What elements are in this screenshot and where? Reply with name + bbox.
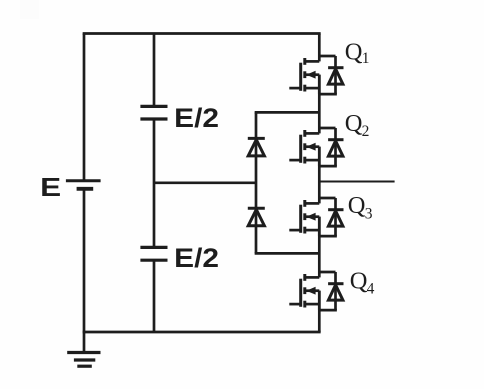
wire: Q1 drain from top rail bbox=[318, 34, 321, 62]
label E bbox=[40, 172, 61, 202]
svg-text:Q: Q bbox=[345, 110, 363, 137]
svg-text:2: 2 bbox=[362, 123, 370, 140]
wire: clamp chain vertical bbox=[255, 112, 258, 253]
svg-text:E: E bbox=[40, 172, 61, 202]
wire: neutral point link bbox=[154, 181, 256, 184]
diode D6 (lower clamp) bbox=[248, 208, 265, 226]
label E/2 for C2 bbox=[174, 243, 219, 273]
transistor Q1 (N-MOSFET with body diode) bbox=[289, 56, 343, 94]
wire: Q2 source to Q3 drain bbox=[318, 147, 321, 204]
transistor Q2 (N-MOSFET with body diode) bbox=[289, 128, 343, 166]
wire: left rail lower segment bbox=[83, 189, 86, 332]
label Q3 bbox=[348, 192, 373, 223]
wire: capacitor branch, top rail to C1 bbox=[153, 34, 156, 107]
wire: Q3 source to Q4 drain bbox=[318, 217, 321, 278]
svg-text:4: 4 bbox=[367, 281, 375, 298]
wire: output line bbox=[319, 181, 394, 183]
svg-text:Q: Q bbox=[345, 39, 363, 66]
wire: Q4 source to bottom rail bbox=[318, 291, 321, 332]
wire: top DC+ rail bbox=[83, 32, 321, 35]
capacitor C1 bbox=[140, 106, 167, 119]
ground bbox=[67, 332, 100, 366]
voltage source E (battery) bbox=[66, 181, 101, 189]
svg-text:E/2: E/2 bbox=[174, 103, 219, 133]
label Q2 bbox=[345, 110, 370, 140]
svg-text:Q: Q bbox=[350, 268, 368, 295]
wire: left rail upper segment bbox=[83, 34, 86, 181]
transistor Q3 (N-MOSFET with body diode) bbox=[289, 198, 343, 236]
svg-text:1: 1 bbox=[362, 50, 370, 67]
wire: Q1 source to Q2 drain bbox=[318, 75, 321, 134]
wire: capacitor branch, C2 to bottom rail bbox=[153, 260, 156, 332]
faint scan artifact top-left bbox=[20, 0, 39, 19]
wire: junction Q1/Q2 to clamp chain bbox=[255, 111, 320, 114]
label E/2 for C1 bbox=[174, 103, 219, 133]
svg-text:E/2: E/2 bbox=[174, 243, 219, 273]
diode D5 (upper clamp) bbox=[248, 138, 265, 156]
wire: capacitor branch, C1 to C2 bbox=[153, 119, 156, 247]
capacitor C2 bbox=[140, 247, 167, 260]
wire: junction Q3/Q4 to clamp chain bbox=[255, 252, 320, 255]
transistor Q4 (N-MOSFET with body diode) bbox=[289, 272, 343, 310]
label Q1 bbox=[345, 39, 370, 67]
svg-text:Q: Q bbox=[348, 192, 366, 219]
wire: bottom rail bbox=[83, 331, 321, 334]
label Q4 bbox=[350, 268, 375, 298]
svg-text:3: 3 bbox=[365, 206, 373, 223]
